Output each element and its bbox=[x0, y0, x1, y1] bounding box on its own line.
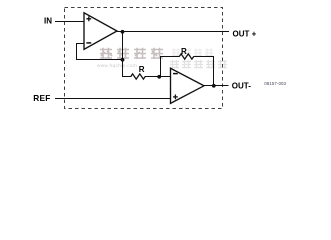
wire IN to op-amp U1 + input bbox=[55, 21, 84, 23]
wire feedback U1 (node B to inverting input) bbox=[77, 44, 123, 60]
wire REF to op-amp U2 + input bbox=[55, 98, 171, 100]
wire node C up / R2 leads / wire down to node D bbox=[161, 57, 214, 87]
svg-text:OUT-: OUT- bbox=[232, 82, 251, 91]
svg-text:OUT +: OUT + bbox=[233, 29, 257, 38]
resistor R1 leads bbox=[122, 76, 171, 78]
op-amp U2 bbox=[171, 68, 205, 103]
node C junction dot bbox=[157, 75, 161, 79]
wire vertical from node A down bbox=[122, 31, 124, 77]
node B junction dot bbox=[121, 58, 125, 62]
resistor R1 zigzag bbox=[131, 74, 145, 79]
dashed enclosure box bbox=[65, 8, 223, 109]
node A junction dot bbox=[121, 30, 125, 34]
svg-text:08157-003: 08157-003 bbox=[264, 81, 286, 86]
svg-text:IN: IN bbox=[44, 17, 52, 26]
svg-text:R: R bbox=[181, 47, 187, 56]
svg-text:REF: REF bbox=[33, 93, 50, 103]
wire U2 output to OUT- bbox=[203, 85, 229, 87]
svg-text:www.hqchip.com: www.hqchip.com bbox=[97, 63, 137, 68]
faint watermark fragments right side bbox=[172, 49, 213, 56]
wire U1 output to OUT+ bbox=[117, 31, 229, 33]
watermark 华强芯城 (pseudo-glyphs) bbox=[100, 48, 163, 59]
op-amp U1 bbox=[84, 13, 117, 50]
svg-text:R: R bbox=[139, 65, 145, 74]
resistor R2 zigzag bbox=[179, 54, 193, 59]
node D junction dot bbox=[212, 84, 216, 88]
